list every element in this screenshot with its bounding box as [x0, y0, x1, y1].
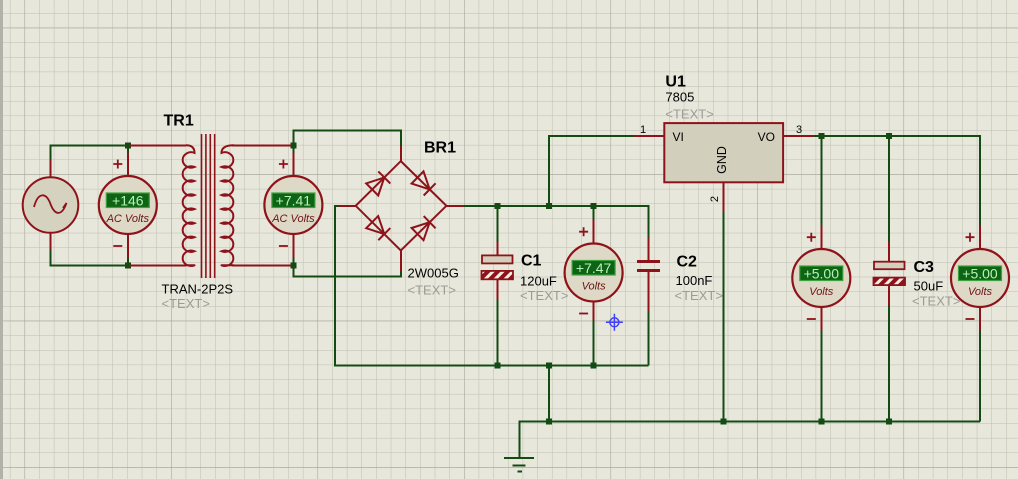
wire C1 top branch — [496, 206, 498, 242]
node riser ground junction — [546, 419, 552, 425]
wire U1 pin2 to ground rail — [723, 212, 725, 422]
pin TR1 primary top — [129, 144, 186, 146]
svg-text:120uF: 120uF — [520, 274, 557, 289]
pin U1 pin3 — [783, 135, 813, 137]
node C3 bottom junction — [886, 419, 892, 425]
pin TR1 secondary bottom — [232, 264, 292, 266]
pin BR1 bottom — [400, 251, 402, 272]
svg-text:+146: +146 — [112, 192, 144, 208]
node meter2 top junction — [290, 142, 296, 148]
pin meter2 bottom — [292, 234, 294, 258]
wire meter3 top branch — [593, 206, 595, 220]
pin meter4 bottom — [820, 307, 822, 331]
wire meter4 top branch — [820, 136, 822, 226]
wire ground rail — [520, 422, 981, 458]
svg-text:C1: C1 — [521, 253, 542, 270]
wire secondary bottom junction to BR1 bottom — [293, 258, 400, 277]
regulator U1 7805 — [664, 123, 783, 182]
svg-text:1: 1 — [640, 124, 646, 136]
svg-text:VO: VO — [758, 130, 775, 144]
svg-text:<TEXT>: <TEXT> — [408, 283, 456, 298]
wire C1 bottom branch — [496, 300, 498, 366]
wire meter3 bottom branch — [593, 321, 595, 366]
svg-text:+7.47: +7.47 — [576, 260, 612, 276]
svg-text:C3: C3 — [914, 259, 935, 276]
pin C3 bottom — [888, 285, 890, 305]
svg-text:Volts: Volts — [809, 286, 834, 298]
node meter1 top junction — [125, 142, 131, 148]
svg-text:AC Volts: AC Volts — [271, 213, 315, 225]
svg-text:Volts: Volts — [582, 280, 607, 292]
diode D4 (bottom to right) — [412, 216, 436, 240]
wire C3 bottom branch — [888, 305, 890, 422]
pin meter3 top — [593, 220, 595, 244]
voltmeter PV2 (AC Volts +7.41) — [264, 176, 322, 234]
diode D1 (left to top) — [366, 171, 390, 195]
capacitor C2 — [637, 262, 660, 271]
primary coil — [183, 145, 195, 266]
node meter3 top junction — [591, 203, 597, 209]
wire net: all green wires — [51, 130, 981, 457]
svg-text:Volts: Volts — [968, 286, 993, 298]
svg-text:100nF: 100nF — [676, 273, 713, 288]
pin TR1 primary bottom — [129, 264, 186, 266]
node riser top junction — [546, 203, 552, 209]
voltmeter PV1 (AC Volts +146) — [99, 176, 157, 234]
svg-text:7805: 7805 — [665, 90, 694, 105]
node C1 bottom junction — [494, 363, 500, 369]
wire C3 top branch — [888, 136, 890, 242]
svg-text:U1: U1 — [665, 74, 686, 91]
secondary coil — [222, 145, 235, 266]
svg-text:50uF: 50uF — [914, 279, 944, 294]
svg-text:TRAN-2P2S: TRAN-2P2S — [162, 282, 234, 297]
svg-text:<TEXT>: <TEXT> — [912, 294, 960, 309]
pin BR1 right — [446, 205, 463, 207]
svg-text:+5.00: +5.00 — [804, 265, 840, 281]
svg-text:GND: GND — [715, 146, 729, 174]
pin C2 bottom — [648, 272, 650, 311]
node meter1 bottom junction — [125, 262, 131, 268]
pin meter5 top — [979, 226, 981, 250]
pin C3 top — [888, 242, 890, 262]
wire +5V rail pin3 to meter5 — [813, 136, 980, 226]
svg-text:+5.00: +5.00 — [962, 265, 998, 281]
pin meter4 top — [820, 226, 822, 250]
node meter4 top junction — [818, 133, 824, 139]
voltmeter PV3 (Volts +7.47) — [565, 244, 623, 302]
wire DC- rail to ground rail riser — [548, 366, 550, 422]
pin meter2 top — [292, 153, 294, 177]
node C3 top junction — [886, 133, 892, 139]
svg-text:AC Volts: AC Volts — [106, 213, 150, 225]
diamond — [356, 161, 447, 250]
wire AC source bottom to meter1 junction — [51, 250, 128, 265]
diode D2 (top to right) — [412, 171, 436, 195]
wire meter4 bottom branch — [820, 331, 822, 422]
diode D3 (left to bottom) — [366, 216, 390, 240]
svg-text:C2: C2 — [677, 254, 698, 271]
red component pins — [51, 136, 981, 331]
svg-text:3: 3 — [796, 124, 802, 136]
wire riser to U1 pin1 — [549, 136, 634, 206]
AC source V1 — [23, 177, 79, 233]
pin BR1 top — [400, 146, 402, 162]
node meter3 bottom junction — [591, 363, 597, 369]
node C1 top junction — [494, 203, 500, 209]
pin meter3 bottom — [593, 301, 595, 321]
pin C2 top — [648, 238, 650, 260]
pin meter1 bottom — [127, 234, 129, 258]
pin meter1 top — [127, 153, 129, 177]
svg-text:<TEXT>: <TEXT> — [675, 288, 723, 303]
core — [202, 134, 215, 278]
svg-text:BR1: BR1 — [424, 140, 456, 157]
svg-text:<TEXT>: <TEXT> — [520, 288, 568, 303]
transformer TR1 — [183, 134, 234, 278]
node meter2 bottom junction — [290, 262, 296, 268]
node riser mid junction — [546, 363, 552, 369]
pin C1 top — [496, 242, 498, 256]
pin BR1 left — [339, 205, 356, 207]
meter polarity marks — [113, 160, 974, 320]
node U1 pin2 ground junction — [721, 419, 727, 425]
pin meter5 bottom — [979, 307, 981, 331]
svg-text:<TEXT>: <TEXT> — [162, 296, 210, 311]
wire C2 bottom branch — [648, 311, 650, 366]
pin U1 pin1 — [634, 135, 664, 137]
pin TR1 secondary top — [232, 144, 292, 146]
wire AC source top to meter1 junction — [51, 145, 128, 162]
capacitor C1 (polarized) — [482, 255, 514, 279]
wire DC+ rail BR1 right to C2 — [463, 206, 649, 238]
ground — [504, 458, 534, 472]
pin C1 bottom — [496, 279, 498, 300]
pin AC source bottom — [50, 233, 52, 251]
pin U1 pin2 — [723, 182, 725, 212]
wire meter5 bottom branch — [979, 331, 981, 422]
bridge rectifier BR1 — [356, 161, 447, 250]
svg-text:2W005G: 2W005G — [408, 266, 459, 281]
wire BR1 left corner to DC- rail — [335, 206, 649, 366]
voltmeter PV5 (Volts +5.00) — [951, 249, 1009, 307]
svg-text:2: 2 — [709, 196, 721, 202]
node meter4 bottom junction — [818, 419, 824, 425]
origin marker — [606, 314, 623, 331]
svg-text:+7.41: +7.41 — [276, 192, 312, 208]
pin AC source top — [50, 160, 52, 178]
svg-text:TR1: TR1 — [164, 113, 194, 130]
capacitor C3 (polarized) — [874, 262, 906, 285]
svg-text:<TEXT>: <TEXT> — [665, 107, 713, 122]
voltmeter PV4 (Volts +5.00) — [792, 249, 850, 307]
svg-text:VI: VI — [673, 130, 684, 144]
wire secondary top junction to BR1 top — [293, 130, 400, 152]
